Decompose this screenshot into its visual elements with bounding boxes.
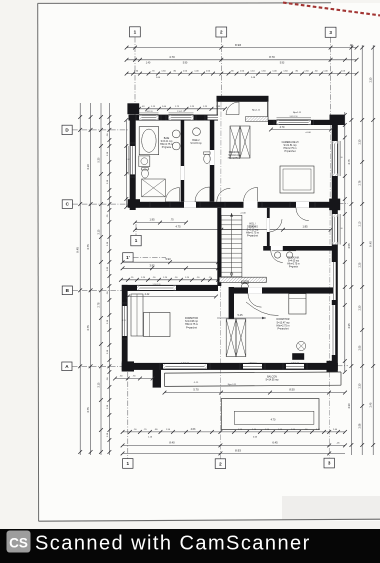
svg-text:3: 3 — [328, 461, 331, 466]
wc door arc — [271, 251, 283, 263]
svg-text:+0.00: +0.00 — [240, 213, 246, 215]
entry door arc — [226, 102, 239, 115]
window sill lines above north wall — [139, 113, 194, 115]
lower room north wall — [122, 285, 218, 291]
exterior wall top (north, left section) — [129, 115, 219, 121]
inner bubble 1 leader — [135, 224, 137, 235]
svg-text:4.75: 4.75 — [86, 244, 90, 250]
inner bubble 1' leader — [133, 256, 166, 258]
svg-text:Np=1.11: Np=1.11 — [293, 112, 302, 114]
building-edge dim column — [343, 112, 347, 374]
bedroom door arc lower — [248, 294, 262, 308]
toilet bathroom — [142, 168, 149, 178]
bathroom interior wall — [181, 120, 185, 202]
svg-text:3.45/1.50: 3.45/1.50 — [290, 116, 298, 118]
svg-text:P=parchet: P=parchet — [186, 326, 197, 329]
level note living — [305, 132, 311, 134]
window head note 1 — [252, 110, 261, 112]
svg-text:1.50: 1.50 — [126, 159, 130, 161]
grid axis D dash-dot — [72, 129, 129, 131]
grid axis 1 upper dash-dot — [134, 37, 136, 115]
svg-text:4.70: 4.70 — [271, 419, 276, 422]
svg-text:S=3.10 mp: S=3.10 mp — [228, 155, 240, 157]
svg-text:9.45: 9.45 — [369, 241, 373, 247]
grid bubble 1 bottom — [123, 459, 133, 469]
lower room west wall — [122, 285, 128, 372]
entry note — [0, 0, 1, 1]
bed lower-left — [144, 313, 171, 337]
svg-text:Scanned with CamScanner: Scanned with CamScanner — [35, 533, 311, 555]
svg-text:CS: CS — [9, 536, 28, 551]
svg-text:1.85: 1.85 — [302, 225, 308, 229]
shower X-box — [142, 179, 166, 197]
svg-text:P=parchet: P=parchet — [247, 235, 258, 238]
left dim column spans A — [86, 103, 92, 455]
svg-text:4.70: 4.70 — [280, 126, 285, 129]
grid bubble D left — [62, 125, 72, 134]
hall door arc upper — [270, 219, 282, 232]
svg-text:5.70: 5.70 — [193, 388, 199, 392]
svg-text:60: 60 — [340, 228, 342, 230]
east wall pier mid — [329, 199, 340, 211]
stair south wall hatched — [219, 277, 266, 282]
svg-text:8.40: 8.40 — [169, 440, 175, 444]
svg-text:DRESING: DRESING — [229, 152, 240, 154]
bathroom door arc — [165, 188, 179, 202]
right dim column spans A — [347, 45, 353, 455]
balcony dimension row — [163, 388, 347, 395]
svg-text:4.70: 4.70 — [169, 55, 175, 59]
grid axis 2 dash-dot — [220, 37, 222, 96]
svg-text:5.93: 5.93 — [280, 63, 285, 65]
mid dimension row 1.95 — [133, 218, 188, 225]
hall east wall — [267, 208, 270, 247]
svg-text:Np=-1.11: Np=-1.11 — [228, 384, 237, 386]
svg-text:1.50: 1.50 — [122, 320, 126, 322]
svg-text:-1.11: -1.11 — [194, 382, 200, 384]
svg-text:S=4.05 mp: S=4.05 mp — [288, 261, 300, 263]
left dim column overall — [76, 103, 82, 455]
overall top dimension row 8.93 — [125, 43, 359, 50]
svg-text:2: 2 — [220, 30, 223, 35]
dressing label — [228, 152, 241, 160]
grid bubble 3 top — [325, 27, 336, 37]
svg-text:2.25: 2.25 — [359, 262, 362, 267]
svg-text:1.90/2.10: 1.90/2.10 — [249, 362, 257, 364]
basin pair bathroom — [172, 130, 180, 150]
mid dimension row 4.75 — [133, 225, 332, 232]
stair west wall — [217, 208, 221, 286]
wall-side mini dim column — [124, 118, 128, 209]
svg-text:1: 1 — [134, 29, 137, 34]
svg-text:3.95: 3.95 — [149, 263, 155, 267]
bathroom label — [160, 137, 173, 149]
grid axis B dash-dot — [72, 289, 122, 291]
svg-text:2.30: 2.30 — [359, 139, 362, 144]
svg-text:90: 90 — [340, 157, 342, 159]
svg-text:2.50/1.20: 2.50/1.20 — [177, 111, 185, 113]
svg-text:4.75: 4.75 — [86, 407, 90, 413]
svg-text:Hfin=2.75 m: Hfin=2.75 m — [228, 158, 241, 160]
east wall pier bottom — [327, 361, 338, 372]
closet sliding arc — [246, 302, 279, 316]
svg-text:9.45: 9.45 — [76, 247, 80, 253]
left dim column spans B — [98, 103, 103, 455]
wardrobe X-boxes — [226, 319, 246, 357]
window jamb hatch marks — [137, 115, 337, 368]
grid bubble 2 top — [216, 27, 227, 37]
living label — [282, 141, 299, 153]
level note hall — [240, 213, 246, 215]
micro window dimension texts — [122, 111, 342, 364]
lower west corner block — [122, 361, 134, 371]
grid bubble 2 bottom — [215, 459, 225, 469]
bedroom mid divider wall — [229, 287, 234, 319]
exterior wall top (north, right section) — [268, 120, 333, 125]
wc label — [287, 257, 300, 269]
grid bubble 1 top — [130, 27, 141, 37]
svg-text:1': 1' — [126, 255, 130, 260]
svg-text:Np=1.11: Np=1.11 — [252, 110, 261, 112]
bath2 basin — [193, 128, 201, 136]
page border top — [38, 2, 331, 5]
desk block lower-right — [292, 353, 304, 360]
svg-text:2.42: 2.42 — [145, 293, 150, 296]
svg-text:4.63: 4.63 — [191, 428, 196, 431]
svg-text:1.95: 1.95 — [149, 218, 155, 222]
toilet hall — [241, 281, 248, 292]
svg-text:3.15: 3.15 — [98, 382, 101, 387]
scanner shadow bottom right — [282, 496, 380, 520]
svg-text:5.93: 5.93 — [165, 257, 171, 261]
svg-text:1.80/2.10: 1.80/2.10 — [291, 362, 299, 364]
mid dimension row 5.93 — [121, 257, 220, 264]
living room door arc — [244, 187, 258, 201]
svg-text:8.93: 8.93 — [235, 43, 241, 47]
washing machine — [139, 156, 150, 167]
south terrace pillar — [153, 367, 161, 388]
inner grid bubble 1 — [131, 235, 141, 245]
svg-text:4.75: 4.75 — [175, 225, 181, 229]
svg-text:2.45: 2.45 — [370, 402, 373, 407]
grid axis 3 dash-dot — [330, 37, 332, 115]
right dim column overall — [369, 45, 375, 455]
svg-text:2.08: 2.08 — [359, 423, 362, 428]
exterior wall south — [122, 363, 338, 370]
terrace label — [271, 419, 276, 422]
svg-text:BAIE 2: BAIE 2 — [192, 139, 200, 142]
exterior wall east — [331, 125, 338, 372]
grid axis A dash-dot — [72, 365, 122, 367]
inner grid bubble 1' — [123, 253, 133, 262]
svg-text:4.30: 4.30 — [347, 403, 351, 409]
living room table — [280, 166, 314, 193]
top dimension row segments — [125, 55, 359, 65]
balcony band — [165, 372, 342, 386]
grid bubble 3 bottom — [324, 458, 334, 468]
svg-text:3.15: 3.15 — [98, 229, 101, 234]
window head note 2 — [293, 112, 302, 114]
page border bottom — [39, 519, 380, 521]
svg-text:2.30: 2.30 — [359, 383, 362, 388]
svg-text:5.45: 5.45 — [237, 313, 243, 317]
terrace outline — [221, 399, 319, 430]
svg-text:8.50: 8.50 — [289, 388, 295, 392]
grid bubble B left — [62, 286, 72, 295]
svg-text:4.35: 4.35 — [347, 323, 351, 329]
svg-text:2.78: 2.78 — [359, 180, 362, 185]
bottom dimension row overall — [121, 448, 345, 455]
bath2 door arc — [195, 187, 210, 202]
grid bubble C left — [62, 200, 72, 209]
svg-text:1.50/1.20: 1.50/1.20 — [145, 111, 153, 113]
hall label — [246, 222, 259, 237]
left dim column detail — [107, 103, 111, 455]
svg-text:4.10: 4.10 — [86, 164, 90, 170]
svg-text:S=4.15 mp: S=4.15 mp — [190, 143, 202, 145]
svg-text:1.40: 1.40 — [146, 63, 151, 65]
svg-text:+0.00: +0.00 — [305, 132, 311, 134]
west wall corner block at grid C — [128, 199, 140, 207]
exterior wall upper stub (entry) — [217, 96, 269, 120]
entry sill hatched band — [246, 117, 269, 122]
svg-text:1: 1 — [127, 461, 130, 466]
svg-text:Hfin=2.75 m: Hfin=2.75 m — [287, 264, 300, 266]
bedroom door arc at grid C gap — [296, 208, 309, 221]
right dim column spans B — [359, 45, 364, 455]
svg-text:2: 2 — [219, 461, 222, 466]
window sill lines above right window — [277, 118, 312, 120]
svg-text:4.40/2.10: 4.40/2.10 — [181, 362, 189, 364]
bath2 toilet — [204, 152, 211, 164]
chimney block top-left — [127, 103, 139, 114]
svg-text:1.50/1.20: 1.50/1.20 — [153, 284, 161, 286]
svg-text:2.10: 2.10 — [359, 221, 362, 226]
page border left — [37, 3, 40, 521]
bathtub — [139, 127, 159, 155]
balcony label — [266, 376, 280, 382]
svg-text:6.45: 6.45 — [272, 440, 278, 444]
top dimension row detail — [125, 71, 359, 79]
svg-text:P=parchet: P=parchet — [278, 328, 289, 331]
mid dimension row 3.95 — [121, 263, 220, 270]
svg-text:5.90: 5.90 — [183, 63, 188, 65]
wall-top mini dimension row — [137, 106, 227, 111]
svg-text:8.70: 8.70 — [269, 55, 275, 59]
grid axis 1 lower dash-dot — [127, 372, 129, 459]
table with chairs lower-right — [297, 341, 306, 350]
south small dim row — [113, 376, 154, 381]
terrace note — [228, 384, 237, 386]
grid C wall ticks — [150, 202, 315, 208]
grid bubble A left — [62, 362, 72, 371]
misc small wall ticks — [122, 115, 314, 370]
bedroom-right label — [277, 318, 291, 330]
svg-text:4.75: 4.75 — [86, 325, 90, 331]
bottom dimension row detail — [121, 428, 347, 439]
bedroom interior dim — [126, 293, 218, 298]
svg-text:8.93: 8.93 — [235, 448, 241, 452]
bottom dimension row spans — [121, 440, 347, 447]
svg-text:1: 1 — [135, 238, 138, 243]
svg-text:2.30: 2.30 — [359, 305, 362, 310]
bed lower-right — [289, 294, 306, 314]
bath2 label — [190, 139, 202, 145]
interior wall along grid C — [129, 201, 334, 208]
east window sills — [339, 141, 341, 245]
svg-text:2.05: 2.05 — [359, 345, 362, 350]
dressing wardrobe X-boxes — [230, 126, 250, 158]
svg-text:S=14.55 mp: S=14.55 mp — [266, 379, 280, 382]
svg-text:DEGAJAM.: DEGAJAM. — [288, 257, 300, 260]
lower room top detail row — [119, 277, 220, 282]
staircase treads — [221, 213, 242, 279]
interior leader dimension 5.45 — [217, 313, 266, 319]
living interior dim 4.70 — [269, 126, 333, 131]
camscanner bar — [0, 529, 380, 563]
svg-text:3: 3 — [329, 30, 332, 35]
svg-text:4.55: 4.55 — [347, 243, 351, 249]
svg-text:4.75: 4.75 — [347, 159, 351, 165]
cs logo — [7, 531, 31, 553]
wardrobe lower-left — [131, 294, 143, 336]
svg-text:2.30: 2.30 — [370, 77, 373, 82]
wc north wall — [263, 246, 333, 251]
bedroom-left label — [185, 317, 199, 329]
red page edge dashed line — [283, 3, 380, 16]
exterior wall west (upper section) — [130, 115, 136, 210]
bath2 interior wall — [210, 120, 215, 202]
corner pier top-right — [330, 115, 345, 125]
svg-text:P=parchet: P=parchet — [285, 150, 296, 153]
svg-text:2.78: 2.78 — [98, 302, 101, 307]
dressing door arc — [217, 188, 231, 202]
twin wash basins — [272, 251, 296, 258]
svg-text:P=gresie: P=gresie — [289, 266, 299, 269]
west window sill lines — [127, 146, 129, 174]
level note balcony — [194, 382, 200, 384]
svg-text:5.30: 5.30 — [98, 157, 101, 162]
lower rooms north wall right — [234, 287, 333, 293]
grid axis C dash-dot — [72, 203, 128, 205]
svg-text:P=gresie: P=gresie — [162, 146, 172, 149]
